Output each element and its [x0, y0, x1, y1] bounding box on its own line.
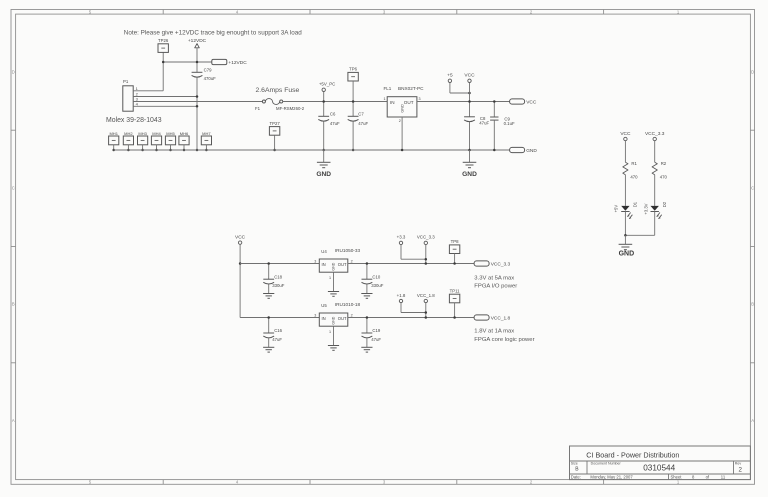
svg-text:1: 1	[329, 330, 331, 334]
svg-text:FPGA core logic power: FPGA core logic power	[474, 337, 534, 343]
svg-text:+1.8: +1.8	[397, 293, 406, 298]
svg-text:C6: C6	[330, 112, 336, 117]
svg-text:VCC_1.8: VCC_1.8	[417, 293, 435, 298]
svg-text:MF-RSM260-2: MF-RSM260-2	[276, 106, 305, 111]
svg-text:47uF: 47uF	[479, 121, 489, 126]
svg-text:2: 2	[399, 119, 401, 123]
svg-text:Size: Size	[571, 462, 578, 466]
svg-text:Rev: Rev	[735, 462, 742, 466]
svg-text:IN: IN	[322, 316, 326, 321]
svg-text:1.8V at 1A max: 1.8V at 1A max	[474, 329, 514, 335]
svg-text:FL1: FL1	[384, 86, 392, 91]
svg-text:Note: Please give +12VDC trace: Note: Please give +12VDC trace big enoug…	[124, 30, 303, 37]
svg-text:330uF: 330uF	[371, 283, 384, 288]
svg-text:U4: U4	[321, 249, 327, 254]
svg-text:VCC: VCC	[620, 131, 631, 137]
svg-text:C19: C19	[372, 328, 380, 333]
svg-text:3: 3	[314, 259, 316, 263]
svg-text:1: 1	[383, 97, 385, 101]
svg-text:VCC: VCC	[235, 234, 246, 240]
svg-text:MH6: MH6	[180, 131, 189, 136]
svg-text:C: C	[751, 186, 754, 191]
svg-text:R2: R2	[661, 161, 667, 166]
svg-text:A: A	[12, 418, 15, 423]
svg-text:GND: GND	[332, 316, 336, 324]
svg-text:VCC_3.3: VCC_3.3	[417, 235, 435, 240]
svg-text:C79: C79	[204, 68, 212, 73]
svg-text:470: 470	[630, 174, 638, 179]
svg-text:TP6: TP6	[349, 67, 357, 72]
svg-text:TP8: TP8	[451, 239, 459, 244]
svg-text:OUT: OUT	[404, 100, 414, 105]
svg-text:MH7: MH7	[202, 131, 211, 136]
svg-text:3.3V at 5A max: 3.3V at 5A max	[474, 275, 514, 281]
svg-text:P1: P1	[123, 79, 129, 84]
svg-text:VCC_3.3: VCC_3.3	[491, 261, 511, 267]
svg-text:OUT: OUT	[338, 316, 347, 321]
svg-text:B: B	[12, 302, 15, 307]
svg-text:MH4: MH4	[152, 131, 161, 136]
svg-text:MH1: MH1	[109, 131, 118, 136]
svg-text:GND: GND	[619, 251, 635, 258]
svg-text:3: 3	[419, 97, 421, 101]
svg-text:2: 2	[739, 467, 743, 474]
svg-text:GND: GND	[462, 171, 477, 178]
svg-text:U5: U5	[321, 303, 327, 308]
svg-text:CI Board - Power Distribution: CI Board - Power Distribution	[586, 450, 679, 459]
svg-text:FPGA I/O power: FPGA I/O power	[474, 284, 517, 290]
svg-text:Sheet: Sheet	[671, 475, 683, 480]
svg-text:B: B	[751, 302, 754, 307]
svg-text:C18: C18	[274, 274, 282, 279]
svg-text:Document Number: Document Number	[591, 462, 622, 466]
svg-text:D: D	[12, 70, 15, 75]
svg-text:BNX02T-PC: BNX02T-PC	[398, 86, 424, 91]
svg-text:2: 2	[351, 259, 353, 263]
svg-text:470: 470	[660, 174, 668, 179]
svg-text:470uF: 470uF	[204, 76, 217, 81]
svg-text:C: C	[12, 186, 15, 191]
svg-text:2: 2	[351, 313, 353, 317]
svg-text:11: 11	[721, 475, 726, 480]
svg-text:C10: C10	[372, 274, 380, 279]
svg-text:VCC: VCC	[464, 73, 475, 79]
svg-text:GND: GND	[316, 171, 331, 178]
svg-text:TP27: TP27	[269, 121, 280, 126]
svg-text:VCC_3.3: VCC_3.3	[645, 131, 665, 137]
svg-text:D1: D1	[633, 201, 638, 207]
svg-text:0.1uF: 0.1uF	[504, 121, 515, 126]
svg-text:Date:: Date:	[571, 475, 581, 480]
svg-text:Molex 39-28-1043: Molex 39-28-1043	[106, 117, 162, 124]
svg-text:GND: GND	[526, 148, 537, 154]
svg-text:D2: D2	[662, 201, 667, 207]
svg-text:47uF: 47uF	[330, 121, 340, 126]
svg-text:MH3: MH3	[138, 131, 147, 136]
svg-text:+5: +5	[447, 73, 453, 79]
svg-text:F1: F1	[255, 106, 261, 111]
svg-text:A: A	[751, 418, 754, 423]
svg-text:+5V_PC: +5V_PC	[319, 82, 335, 87]
svg-text:C7: C7	[358, 112, 364, 117]
svg-text:C16: C16	[274, 328, 282, 333]
svg-text:+3.3V: +3.3V	[643, 203, 648, 214]
svg-text:47uF: 47uF	[272, 337, 282, 342]
svg-text:Monday, May 21, 2007: Monday, May 21, 2007	[590, 475, 633, 480]
svg-text:MH5: MH5	[166, 131, 175, 136]
svg-text:IRU1010-18: IRU1010-18	[335, 302, 361, 307]
svg-text:330uF: 330uF	[272, 283, 285, 288]
svg-text:+12VDC: +12VDC	[228, 60, 247, 66]
svg-text:+5V: +5V	[614, 205, 619, 213]
svg-text:IN: IN	[322, 262, 326, 267]
svg-text:3: 3	[314, 313, 316, 317]
svg-text:2.6Amps Fuse: 2.6Amps Fuse	[256, 87, 300, 94]
svg-text:47uF: 47uF	[358, 121, 368, 126]
svg-text:GND: GND	[332, 262, 336, 270]
svg-text:GND: GND	[401, 104, 405, 113]
svg-text:47uF: 47uF	[371, 337, 381, 342]
svg-text:VCC: VCC	[526, 99, 537, 105]
svg-text:R1: R1	[631, 161, 637, 166]
svg-text:VCC_1.8: VCC_1.8	[491, 315, 511, 321]
svg-text:MH2: MH2	[124, 131, 133, 136]
svg-text:0310544: 0310544	[643, 464, 675, 473]
svg-text:IN: IN	[390, 100, 395, 105]
svg-text:+3.3: +3.3	[397, 235, 406, 240]
svg-text:D: D	[751, 70, 754, 75]
svg-text:IRU1050-33: IRU1050-33	[335, 248, 361, 253]
svg-text:1: 1	[329, 276, 331, 280]
svg-text:TP26: TP26	[158, 38, 169, 43]
svg-text:OUT: OUT	[338, 262, 347, 267]
svg-text:TP11: TP11	[450, 288, 461, 293]
